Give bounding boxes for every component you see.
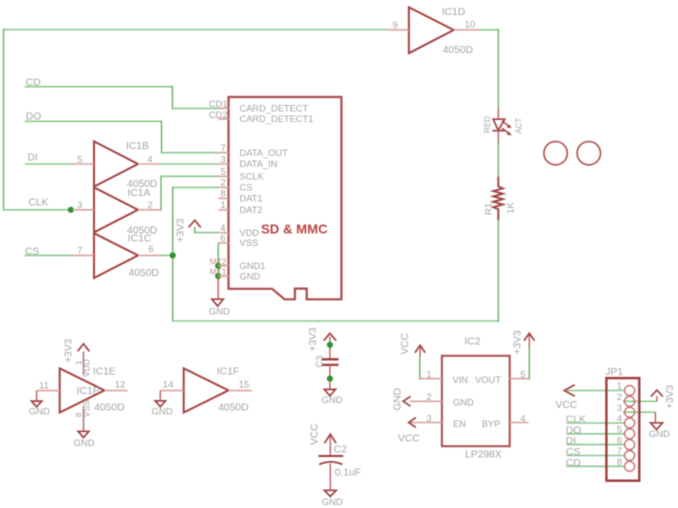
pin pad circle 4 <box>625 418 635 428</box>
wire DO to JP1 pin 5 <box>567 433 625 435</box>
svg-text:15: 15 <box>239 380 250 391</box>
pin pad circle 3 <box>625 407 635 417</box>
voltage regulator IC2 body <box>442 356 510 446</box>
svg-text:VIN: VIN <box>453 375 469 385</box>
wire IC1C output to junction node <box>160 254 173 256</box>
svg-text:6: 6 <box>617 435 622 446</box>
capacitor C2 bottom plate (curved) <box>319 462 342 465</box>
svg-text:DATA_OUT: DATA_OUT <box>240 148 289 158</box>
svg-text:IC1P: IC1P <box>77 386 100 397</box>
svg-text:IC1F: IC1F <box>217 367 239 378</box>
svg-text:GND: GND <box>152 406 173 417</box>
svg-text:4: 4 <box>617 414 622 425</box>
svg-text:DO: DO <box>26 112 41 123</box>
svg-text:IC1C: IC1C <box>128 233 152 244</box>
svg-text:0.1uF: 0.1uF <box>335 468 361 479</box>
svg-text:VSS: VSS <box>240 238 259 248</box>
svg-text:DI: DI <box>28 152 38 163</box>
svg-text:2: 2 <box>617 392 622 403</box>
pin 14 input IC1F <box>160 390 183 392</box>
ground symbol at pin 11 <box>31 401 41 407</box>
svg-text:VOUT: VOUT <box>475 375 501 385</box>
svg-text:4: 4 <box>520 413 525 424</box>
ground symbol IC1P <box>78 431 89 437</box>
capacitor C2 top pin <box>329 435 331 455</box>
mounting hole circle 1 <box>544 142 567 165</box>
pin 11 input IC1E <box>37 390 60 392</box>
svg-text:8: 8 <box>617 457 622 468</box>
wire CS net from label to IC1C input <box>25 254 73 256</box>
svg-text:11: 11 <box>39 381 49 392</box>
wire JP1 pin 3 to GND <box>623 411 656 413</box>
wire VCC to JP1 pin 1 <box>567 390 625 392</box>
svg-text:GND: GND <box>649 429 670 440</box>
wire CS to JP1 pin 7 <box>567 455 625 457</box>
pin 1 VDD riser IC1P <box>83 352 85 376</box>
svg-text:GND: GND <box>453 397 474 407</box>
op-amp buffer IC1D body <box>409 7 454 53</box>
svg-text:LP298X: LP298X <box>465 450 502 461</box>
svg-text:CARD_DETECT1: CARD_DETECT1 <box>240 114 314 124</box>
wire LED cathode to R1 <box>497 142 499 177</box>
wire VCC to VIN <box>419 356 421 380</box>
pin 9 input IC1D <box>386 29 409 31</box>
op-amp buffer IC1E body <box>60 368 105 412</box>
svg-text:GND: GND <box>392 388 403 411</box>
svg-text:4: 4 <box>147 154 152 165</box>
svg-text:SD & MMC: SD & MMC <box>261 222 328 237</box>
capacitor C2 bottom pin <box>329 464 331 491</box>
pin CD1 stub <box>218 107 228 109</box>
svg-text:BYP: BYP <box>482 419 501 429</box>
svg-text:6: 6 <box>220 233 225 244</box>
svg-text:3: 3 <box>426 413 431 424</box>
svg-text:2: 2 <box>426 392 431 403</box>
svg-text:CD2: CD2 <box>209 110 228 121</box>
svg-text:12: 12 <box>115 380 126 391</box>
svg-text:9: 9 <box>393 20 398 31</box>
LED cathode pin <box>497 131 499 143</box>
svg-text:2: 2 <box>148 200 153 211</box>
svg-text:RED: RED <box>483 116 492 133</box>
ground symbol C3 <box>324 389 335 395</box>
svg-text:10: 10 <box>465 20 476 31</box>
capacitor C3 top pin <box>329 337 331 359</box>
pin 4 VDD stub <box>218 232 228 234</box>
svg-text:VCC: VCC <box>556 400 578 411</box>
resistor R1 zigzag <box>493 177 503 220</box>
svg-text:6: 6 <box>148 244 153 255</box>
pin 12 output IC1E <box>104 390 127 392</box>
pin 6 output IC1C <box>138 254 160 256</box>
svg-text:IC1E: IC1E <box>93 367 116 378</box>
LED emission arrow 2 <box>502 128 509 134</box>
wire CLK net: top run to IC1D input and left vertical <box>4 29 387 31</box>
ground drop at pin 11 <box>36 391 38 402</box>
svg-text:DO: DO <box>566 425 581 436</box>
svg-text:1: 1 <box>426 369 431 380</box>
svg-text:14: 14 <box>163 380 174 391</box>
svg-text:IC1B: IC1B <box>126 141 149 152</box>
pin 5 SCLK stub <box>218 175 228 177</box>
svg-text:7: 7 <box>617 446 622 457</box>
pin 3 input IC1A <box>73 209 94 211</box>
connector SD & MMC card body <box>229 97 342 299</box>
svg-text:CD: CD <box>26 78 41 89</box>
svg-text:C2: C2 <box>334 444 347 455</box>
svg-text:+3V3: +3V3 <box>175 218 186 242</box>
supply VCC arrow at JP1 pin 1 <box>564 385 575 396</box>
svg-text:VCC: VCC <box>310 423 321 445</box>
svg-text:CS: CS <box>25 247 39 258</box>
svg-text:CS: CS <box>566 447 580 458</box>
pin MT2 stub <box>218 265 228 267</box>
node junction C3 bottom <box>327 376 333 382</box>
svg-text:GND: GND <box>209 307 230 318</box>
LED cathode bar <box>492 130 504 132</box>
svg-text:CLK: CLK <box>28 198 48 209</box>
svg-text:3: 3 <box>221 154 226 165</box>
svg-text:1K: 1K <box>506 202 517 214</box>
svg-text:+3V3: +3V3 <box>665 385 676 409</box>
svg-text:R1: R1 <box>484 203 495 215</box>
svg-text:DI: DI <box>566 436 576 447</box>
pin 15 output IC1F <box>228 390 252 392</box>
supply +3V3 arrow at JP1 pin 2 <box>656 396 658 401</box>
svg-text:5: 5 <box>617 425 622 436</box>
svg-text:+3V3: +3V3 <box>308 327 319 351</box>
pin pad circle 2 <box>625 396 635 406</box>
wire DI net from label to IC1B input <box>25 163 73 165</box>
pin 5 VOUT stub <box>510 378 529 380</box>
wire CD net from label to CD1 pin <box>25 86 173 88</box>
svg-text:IC1A: IC1A <box>128 188 151 199</box>
ground symbol at JP1 pin 3 <box>651 423 663 430</box>
op-amp buffer IC1C body <box>94 233 138 278</box>
ground drop at JP1 pin 3 <box>654 412 656 423</box>
svg-text:CS: CS <box>240 183 253 193</box>
svg-text:CD: CD <box>566 458 581 469</box>
pin 2 GND stub <box>410 400 442 402</box>
mounting hole circle 2 <box>577 142 600 165</box>
ground symbol at pin 14 <box>155 401 165 407</box>
wire DO net from label to DATA_OUT pin <box>25 120 162 122</box>
svg-text:CLK: CLK <box>566 415 586 426</box>
pin 8 VSS drop IC1P <box>83 406 85 431</box>
svg-text:IC1D: IC1D <box>442 7 465 18</box>
pin 3 EN stub <box>409 422 442 424</box>
svg-text:VDD: VDD <box>240 228 260 238</box>
wire IC1D output to LED anode <box>479 29 500 31</box>
svg-text:GND: GND <box>322 497 343 508</box>
svg-text:CARD_DETECT: CARD_DETECT <box>240 103 309 113</box>
ground drop at pin 14 <box>159 391 161 401</box>
pin 5 input IC1B <box>73 163 94 165</box>
wire VOUT to +3V3 <box>528 347 530 380</box>
svg-text:1: 1 <box>221 200 226 211</box>
svg-text:4050D: 4050D <box>94 402 124 413</box>
pin pad circle 5 <box>625 429 635 439</box>
LED D triangle <box>493 119 505 130</box>
op-amp buffer IC1A body <box>94 187 138 232</box>
LED emission arrow 1 <box>502 121 509 127</box>
pin pad circle 7 <box>625 451 635 461</box>
wire CD to JP1 pin 8 <box>567 465 625 467</box>
supply VCC arrow at VIN <box>419 347 421 357</box>
pin 3 DATA_IN stub <box>218 163 228 165</box>
svg-text:GND: GND <box>240 271 261 281</box>
ground symbol C2 <box>324 490 336 496</box>
svg-text:CD1: CD1 <box>209 99 228 110</box>
pin 1 VIN stub <box>419 378 442 380</box>
svg-text:GND: GND <box>74 438 95 449</box>
node junction IC1C output / CS pin / ACT loop <box>170 252 176 258</box>
svg-text:4050D: 4050D <box>218 402 248 413</box>
svg-text:+3V3: +3V3 <box>63 338 74 362</box>
svg-text:SCLK: SCLK <box>240 172 265 182</box>
ground symbol below SD card <box>212 299 223 306</box>
pin 7 DATA_OUT stub <box>218 152 228 154</box>
connector JP1 body <box>606 378 639 481</box>
pin 2 output IC1A <box>138 209 161 211</box>
pin 4 output IC1B <box>138 163 160 165</box>
svg-text:MT2: MT2 <box>210 256 227 266</box>
wire +3V3 to VDD pin 4 <box>194 227 196 234</box>
svg-text:GND: GND <box>29 406 50 417</box>
wire VSS to MT1/MT2 ground run <box>217 243 219 277</box>
supply +3V3 arrow at VOUT <box>528 335 530 348</box>
pin 1 DAT2 stub <box>218 209 228 211</box>
svg-text:GND: GND <box>322 395 343 406</box>
svg-text:+3V3: +3V3 <box>513 330 524 354</box>
svg-text:5: 5 <box>520 369 525 380</box>
op-amp buffer IC1B body <box>94 141 138 186</box>
svg-text:ACT: ACT <box>515 118 524 134</box>
capacitor C2 top plate <box>318 455 343 457</box>
svg-text:8: 8 <box>73 412 83 417</box>
pin 8 DAT1 stub <box>218 197 228 199</box>
svg-text:7: 7 <box>77 246 82 257</box>
pin 10 output IC1D <box>454 29 479 31</box>
svg-text:VCC: VCC <box>400 333 411 355</box>
ground pin below MT1 <box>217 277 219 299</box>
svg-text:3: 3 <box>617 403 622 414</box>
svg-text:IC2: IC2 <box>464 337 480 348</box>
wire ACT net bottom loop from junction to resistor R1 <box>172 255 174 321</box>
pin 7 input IC1C <box>73 254 94 256</box>
pin MT1 stub <box>218 275 228 277</box>
supply +3V3 arrow IC1P <box>78 344 90 351</box>
node junction MT1 <box>215 273 221 279</box>
svg-text:EN: EN <box>453 419 466 429</box>
pin pad circle 8 <box>625 461 635 471</box>
wire CLK to JP1 pin 4 <box>567 422 625 424</box>
wire CS buffered riser to CS pin of card <box>172 187 174 257</box>
node junction on CLK at IC1A input <box>68 207 74 213</box>
supply GND arrow at pin 2 <box>403 396 410 406</box>
capacitor C3 plates <box>322 359 339 365</box>
wire JP1 pin 2 to +3V3 <box>623 400 657 402</box>
svg-text:4050D: 4050D <box>129 268 159 279</box>
svg-text:5: 5 <box>221 167 226 178</box>
pin pad circle 1 <box>625 386 635 396</box>
capacitor C3 supply arrow +3V3 <box>324 333 336 340</box>
pin 4 BYP stub <box>510 422 529 424</box>
svg-text:5: 5 <box>77 154 82 165</box>
op-amp buffer IC1F body <box>184 368 229 412</box>
svg-text:VDD: VDD <box>82 359 92 377</box>
svg-text:JP1: JP1 <box>605 367 623 378</box>
capacitor C2 supply VCC arrow <box>325 434 337 443</box>
capacitor C3 bottom pin <box>329 365 331 389</box>
pin pad circle 6 <box>625 440 635 450</box>
pin 6 VSS stub <box>218 242 228 244</box>
svg-text:C3: C3 <box>315 355 326 367</box>
wire DI to JP1 pin 6 <box>567 444 625 446</box>
svg-text:8: 8 <box>221 189 226 200</box>
svg-text:VCC: VCC <box>398 434 420 445</box>
node junction MT2 <box>215 263 221 269</box>
pin 2 CS stub <box>218 186 228 188</box>
supply VCC arrow at EN <box>409 418 416 428</box>
svg-text:2: 2 <box>221 178 226 189</box>
svg-text:MT1: MT1 <box>210 267 227 277</box>
pin CD2 stub <box>218 118 228 120</box>
svg-text:DATA_IN: DATA_IN <box>240 159 278 169</box>
wire IC1B output to DATA_IN pin <box>160 163 218 165</box>
svg-text:GND1: GND1 <box>240 261 266 271</box>
svg-text:DAT2: DAT2 <box>240 205 263 215</box>
LED anode pin <box>497 109 499 119</box>
wire IC1A output to SCLK pin <box>160 176 162 211</box>
wire CLK horizontal from left riser to IC1A input <box>3 209 73 211</box>
svg-text:DAT1: DAT1 <box>240 194 263 204</box>
svg-text:4050D: 4050D <box>443 45 473 56</box>
svg-text:7: 7 <box>221 143 226 154</box>
svg-text:3: 3 <box>77 200 82 211</box>
node junction C3 top <box>327 342 333 348</box>
svg-text:1: 1 <box>617 381 622 392</box>
supply +3V3 arrow at VDD <box>189 220 201 227</box>
